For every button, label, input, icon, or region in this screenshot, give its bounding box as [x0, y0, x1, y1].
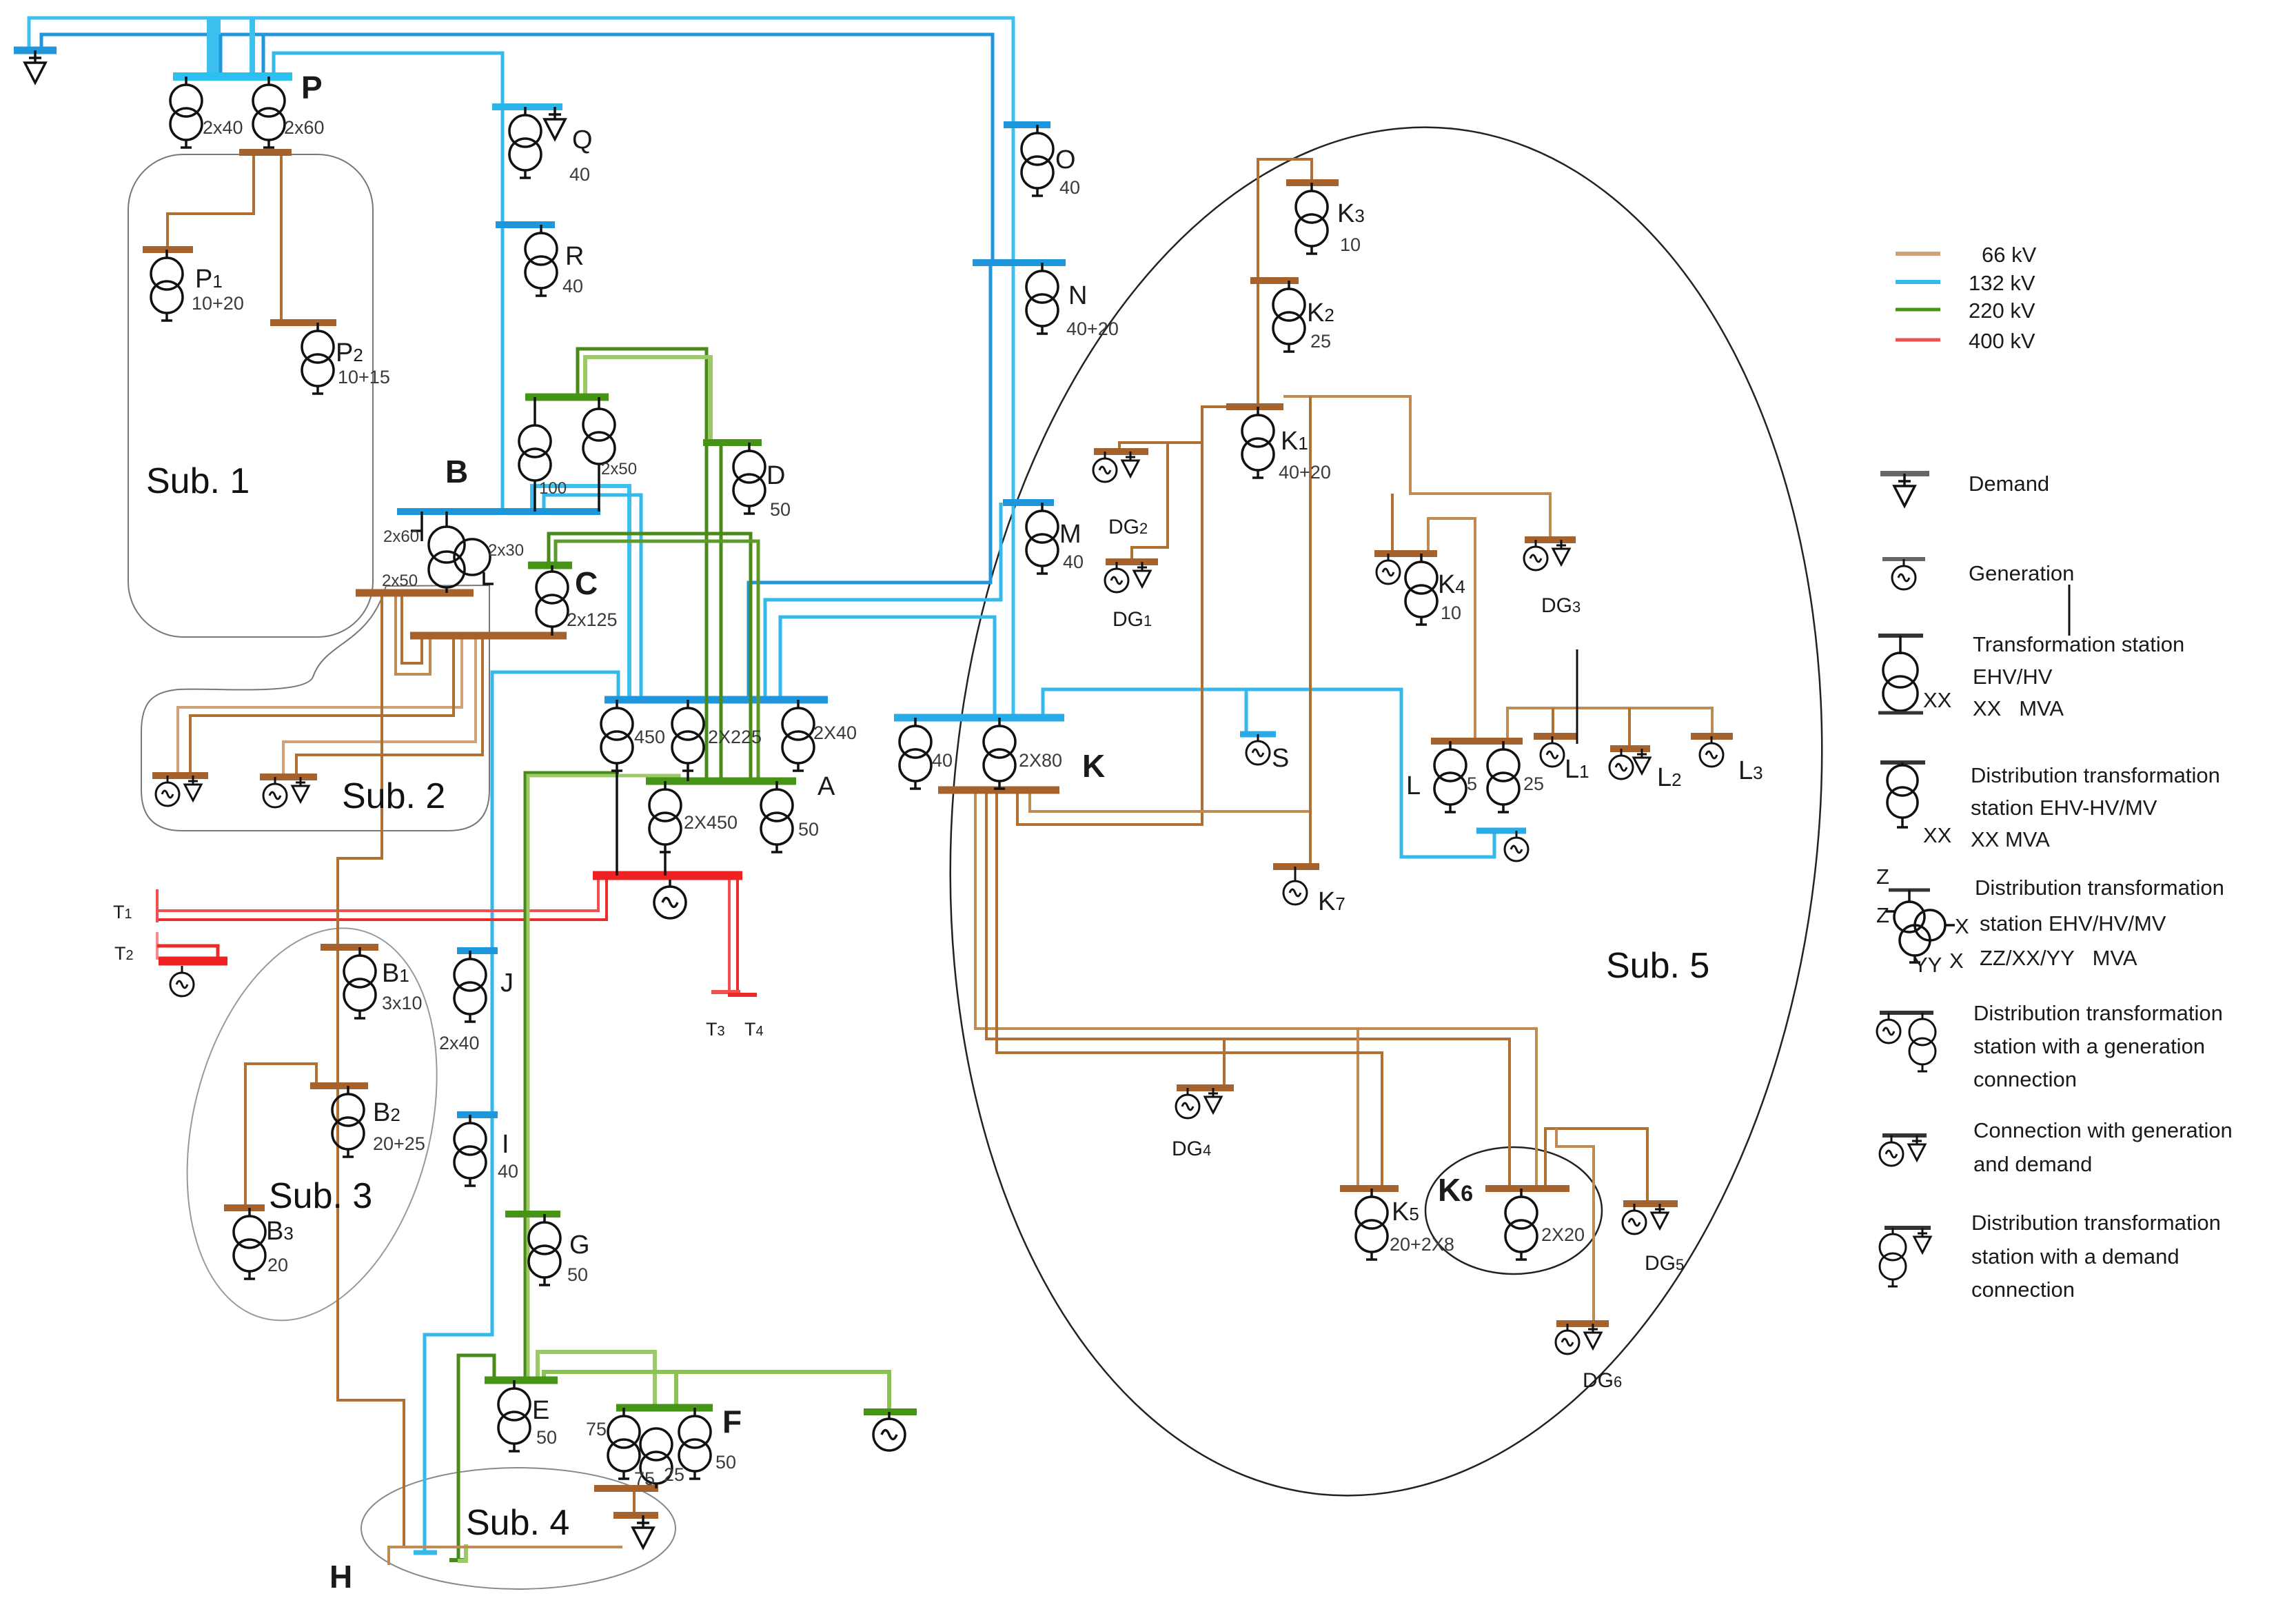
- svg-text:Q: Q: [572, 125, 593, 154]
- DG5 gen and demand: [1623, 1204, 1646, 1234]
- transformer cluster 2x60 2x50 2x30 below B: [411, 512, 494, 593]
- svg-text:F: F: [722, 1404, 742, 1439]
- svg-text:K3: K3: [1337, 199, 1365, 228]
- wire 66kV DG1 branch: [1132, 443, 1168, 562]
- wire 66kV link U2 between brown buses: [402, 593, 422, 663]
- wire 220kV E to F line 1: [538, 1352, 655, 1408]
- wire 220kV D to bus A: [720, 443, 723, 781]
- svg-text:Connection with generation: Connection with generation: [1973, 1118, 2233, 1142]
- Sub. 1 outline: [128, 154, 373, 637]
- transformer K5: [1356, 1189, 1388, 1260]
- svg-text:50: 50: [798, 819, 819, 840]
- svg-text:M: M: [1059, 520, 1081, 549]
- bus K 66kV: [938, 787, 1059, 794]
- wire 132kV P drops from top lines: [207, 18, 221, 77]
- svg-text:3x10: 3x10: [382, 993, 423, 1013]
- svg-text:O: O: [1055, 145, 1076, 174]
- svg-text:Sub. 2: Sub. 2: [342, 776, 445, 816]
- wire 66kV Sub2 feeder 1: [178, 636, 462, 776]
- svg-text:66 kV: 66 kV: [1982, 243, 2037, 267]
- K4 gen: [1376, 554, 1400, 584]
- wire 132kV B to bus A line 1: [532, 486, 629, 700]
- node T2 tick: [156, 932, 159, 960]
- svg-text:2x30: 2x30: [488, 541, 524, 560]
- transformer R: [525, 225, 557, 296]
- transformer I: [454, 1115, 486, 1186]
- wire 66kV P bus to P1: [167, 152, 254, 247]
- bus J: [457, 947, 498, 954]
- svg-text:EHV/HV: EHV/HV: [1973, 665, 2053, 689]
- wire 66kV DG2 branch: [1119, 443, 1202, 452]
- legend swatch 66kV: [1896, 252, 1940, 256]
- wire 66kV L2 drop: [1628, 708, 1631, 749]
- svg-text:YY: YY: [1913, 953, 1942, 977]
- bus K2: [1250, 277, 1299, 284]
- svg-text:E: E: [532, 1396, 549, 1425]
- svg-text:50: 50: [536, 1427, 557, 1448]
- transformer P1: [151, 250, 183, 321]
- svg-text:P1: P1: [195, 265, 223, 294]
- L2 gen and demand: [1609, 749, 1633, 779]
- Sub2 station 1 gen and demand: [156, 776, 179, 806]
- svg-text:Distribution transformation: Distribution transformation: [1971, 763, 2220, 787]
- svg-text:20: 20: [267, 1255, 288, 1275]
- svg-text:Sub. 3: Sub. 3: [269, 1176, 372, 1216]
- svg-text:10: 10: [1441, 603, 1461, 623]
- bus DG3: [1525, 536, 1576, 543]
- svg-text:Z: Z: [1876, 903, 1889, 927]
- wire 66kV DG6 feeder: [1556, 1129, 1594, 1324]
- L1 gen: [1541, 736, 1564, 767]
- wire 220kV bus A to G and E second circuit: [528, 776, 679, 1380]
- wire 66kV H horizontal: [389, 1547, 622, 1565]
- wire 66kV K5 drop light: [1357, 1029, 1359, 1189]
- svg-text:40: 40: [932, 750, 953, 771]
- svg-text:T2: T2: [114, 943, 134, 964]
- node T3 terminal: [711, 990, 740, 994]
- svg-text:10+15: 10+15: [338, 367, 390, 387]
- wire 66kV P bus to P2: [280, 152, 283, 320]
- Sub. 2 outline: [141, 585, 489, 831]
- wire 220kV bus A to G and E: [525, 773, 619, 1380]
- svg-text:B2: B2: [373, 1098, 400, 1127]
- bus K5: [1340, 1185, 1399, 1192]
- transformer K2: [1273, 281, 1305, 352]
- wire 66kV DG4 drop: [1223, 1039, 1226, 1088]
- legend distribution transformation station EHV-HV MV: [1880, 760, 1925, 765]
- svg-text:T4: T4: [744, 1019, 764, 1040]
- wire 66kV L1 drop: [1552, 708, 1554, 736]
- node T4 terminal: [728, 993, 757, 997]
- bus P 66kV: [239, 149, 292, 156]
- svg-text:Distribution transformation: Distribution transformation: [1973, 1001, 2223, 1025]
- svg-text:2x40: 2x40: [203, 117, 243, 138]
- svg-text:220 kV: 220 kV: [1969, 299, 2035, 323]
- bus DG5: [1623, 1200, 1678, 1207]
- wire 132kV N to bus A: [749, 263, 990, 700]
- transformer C 2x125: [536, 565, 568, 636]
- legend pointer line: [2069, 585, 2071, 636]
- transformer A 50: [761, 781, 793, 852]
- bus Sub4 a: [594, 1485, 658, 1492]
- wire 66kV K fan line 1 to K6: [975, 790, 1536, 1189]
- wire 66kV L MV header: [1507, 708, 1712, 741]
- generator right 220kV: [873, 1412, 905, 1451]
- legend transformation station EHV HV: [1878, 634, 1923, 638]
- svg-text:5: 5: [1467, 774, 1477, 794]
- bus brown 1 below B: [356, 589, 474, 597]
- wire 132kV M to bus A: [765, 503, 1001, 700]
- svg-text:K5: K5: [1392, 1197, 1419, 1226]
- bus K1: [1226, 403, 1283, 410]
- transformer B3: [234, 1208, 265, 1279]
- Sub. 4 outline: [361, 1468, 675, 1589]
- bus B3: [224, 1204, 265, 1211]
- bus L MV: [1476, 828, 1526, 834]
- svg-text:N: N: [1068, 281, 1087, 310]
- transformer N: [1026, 263, 1058, 334]
- svg-text:40: 40: [1059, 177, 1080, 198]
- svg-text:B1: B1: [382, 959, 409, 988]
- bus A: [605, 696, 828, 704]
- wire 132kV P-Q-R-B feeder: [274, 53, 502, 512]
- svg-text:25: 25: [1523, 774, 1544, 794]
- wire 66kV K fan line 2 to DG4 K6: [986, 790, 1510, 1189]
- bus DG2: [1094, 448, 1148, 455]
- wire 66kV Sub2 feeder 2: [190, 636, 454, 776]
- legend swatch 132kV: [1896, 280, 1940, 284]
- bus 220kV near B: [525, 394, 609, 401]
- wire 66kV Sub2 feeder 3: [283, 636, 476, 777]
- bus Sub4 b: [613, 1512, 658, 1519]
- svg-text:B: B: [445, 454, 468, 489]
- transformer B1: [344, 947, 376, 1018]
- svg-text:L: L: [1406, 771, 1421, 800]
- L3 gen: [1700, 736, 1723, 767]
- DG6 gen and demand: [1556, 1324, 1579, 1354]
- bus DG6: [1556, 1320, 1609, 1327]
- DG3 gen and demand: [1524, 540, 1547, 570]
- svg-text:K6: K6: [1438, 1172, 1473, 1208]
- svg-text:50: 50: [567, 1264, 588, 1285]
- K6 outline: [1425, 1147, 1602, 1274]
- wire 66kV K7 feeder: [1309, 396, 1312, 867]
- svg-text:B3: B3: [266, 1217, 294, 1246]
- svg-text:Sub. 5: Sub. 5: [1606, 946, 1709, 986]
- wire 400kV to T3 T4: [728, 876, 731, 991]
- bus I: [457, 1111, 498, 1118]
- transformer 100 at green bus: [519, 397, 551, 512]
- legend swatch 220kV: [1896, 308, 1940, 312]
- wire 132kV bus A to J I and H: [425, 672, 618, 1553]
- bus L3: [1691, 733, 1733, 740]
- svg-text:Transformation station: Transformation station: [1973, 632, 2184, 656]
- Sub. 5 outline: [891, 88, 1882, 1535]
- svg-text:132 kV: 132 kV: [1969, 271, 2035, 295]
- wire 66kV K to K1: [1017, 407, 1226, 825]
- svg-text:station with a demand: station with a demand: [1971, 1244, 2180, 1269]
- svg-text:D: D: [766, 461, 785, 490]
- generator at 400kV bus: [654, 880, 686, 918]
- transformer M: [1026, 503, 1058, 574]
- svg-text:L3: L3: [1738, 756, 1763, 785]
- transformer P2: [302, 323, 334, 394]
- wire 220kV green top bus to D: [585, 357, 711, 443]
- svg-text:DG3: DG3: [1541, 594, 1581, 617]
- wire 66kV DG5 feeder: [1545, 1129, 1647, 1204]
- wire 132kV top line 2 (left demand bus to N): [41, 34, 993, 263]
- svg-text:2X20: 2X20: [1541, 1224, 1585, 1245]
- svg-text:2X80: 2X80: [1019, 750, 1062, 771]
- bus K6: [1485, 1185, 1569, 1192]
- wire 66kV K lower line: [1030, 790, 1310, 811]
- svg-text:Distribution transformation: Distribution transformation: [1975, 876, 2224, 900]
- svg-text:40: 40: [562, 276, 583, 296]
- wire 66kV K1 right feeder: [1283, 396, 1550, 540]
- svg-text:A: A: [817, 772, 835, 801]
- wire 132kV K to S and L MV: [1043, 689, 1494, 857]
- svg-text:T1: T1: [113, 902, 132, 922]
- legend demand symbol: [1880, 471, 1929, 476]
- svg-text:I: I: [502, 1130, 509, 1159]
- svg-text:20+25: 20+25: [373, 1133, 425, 1154]
- generator T2: [170, 966, 194, 996]
- bus F: [616, 1404, 713, 1412]
- svg-text:DG6: DG6: [1583, 1369, 1622, 1392]
- DG2 gen and demand: [1093, 452, 1117, 482]
- transformer K4: [1405, 554, 1437, 625]
- svg-text:J: J: [500, 969, 514, 998]
- svg-text:XX MVA: XX MVA: [1973, 696, 2064, 720]
- transformer P 2x40: [170, 77, 202, 148]
- wire 400kV T2 branch: [157, 946, 218, 961]
- svg-text:75: 75: [634, 1468, 655, 1489]
- svg-text:Sub. 4: Sub. 4: [466, 1503, 569, 1543]
- legend distribution with generation: [1880, 1011, 1933, 1015]
- bus L1: [1534, 733, 1577, 740]
- bus G: [505, 1211, 560, 1217]
- bus K7: [1273, 863, 1319, 870]
- svg-text:50: 50: [715, 1452, 736, 1473]
- svg-text:25: 25: [664, 1464, 684, 1485]
- transformer K 40: [900, 718, 931, 789]
- svg-text:ZZ/XX/YY MVA: ZZ/XX/YY MVA: [1980, 946, 2137, 970]
- bus E: [485, 1377, 558, 1384]
- bus M: [1003, 499, 1054, 506]
- wire 66kV K4 to L: [1428, 518, 1475, 741]
- transformer B2: [332, 1086, 364, 1157]
- svg-text:station EHV-HV/MV: station EHV-HV/MV: [1971, 796, 2157, 820]
- Sub2 station 2 gen and demand: [263, 777, 287, 807]
- wire 400kV T1 double line: [157, 876, 598, 911]
- svg-text:2x50: 2x50: [382, 572, 418, 590]
- svg-text:10+20: 10+20: [192, 293, 244, 314]
- wire 66kV K4 drop: [1391, 494, 1394, 554]
- svg-text:Z: Z: [1876, 865, 1889, 889]
- legend distribution with demand: [1884, 1226, 1931, 1230]
- bus Sub2 station 2: [260, 774, 317, 780]
- legend swatch 400kV: [1896, 338, 1940, 342]
- svg-text:P2: P2: [336, 338, 363, 367]
- transformer L a: [1434, 741, 1466, 812]
- transformer 450: [601, 700, 633, 771]
- transformer 2X450: [649, 781, 681, 852]
- bus D: [703, 439, 762, 446]
- transformer G: [529, 1214, 560, 1285]
- svg-text:2x60: 2x60: [383, 527, 419, 546]
- svg-text:station EHV/HV/MV: station EHV/HV/MV: [1980, 911, 2166, 936]
- wire 220kV C to bus A line 2: [556, 541, 758, 781]
- svg-text:H: H: [329, 1559, 352, 1595]
- svg-text:75: 75: [586, 1419, 607, 1439]
- svg-text:100: 100: [539, 479, 567, 498]
- bus P1: [143, 246, 193, 253]
- svg-text:connection: connection: [1971, 1277, 2075, 1302]
- transformer K3: [1296, 183, 1328, 254]
- svg-text:K: K: [1082, 748, 1105, 784]
- svg-text:station with a generation: station with a generation: [1973, 1034, 2205, 1058]
- wire 220kV H green tick: [449, 1558, 467, 1562]
- transformer D: [733, 443, 765, 514]
- svg-text:C: C: [575, 565, 598, 601]
- svg-text:and demand: and demand: [1973, 1152, 2092, 1176]
- svg-text:K2: K2: [1307, 299, 1334, 327]
- legend generation symbol: [1882, 557, 1925, 561]
- bus K4: [1374, 550, 1437, 557]
- svg-text:T3: T3: [706, 1019, 725, 1040]
- demand Q: [545, 107, 565, 139]
- svg-text:DG4: DG4: [1172, 1138, 1211, 1160]
- svg-text:40+20: 40+20: [1066, 319, 1119, 339]
- wire 66kV K3 to K1: [1258, 159, 1312, 407]
- svg-text:2x40: 2x40: [439, 1033, 480, 1053]
- svg-text:40: 40: [569, 164, 590, 185]
- bus R: [496, 221, 555, 228]
- svg-text:2X225: 2X225: [708, 727, 762, 747]
- bus O: [1004, 121, 1050, 128]
- wire 220kV E to F and right generator: [544, 1372, 889, 1412]
- bus B2: [310, 1082, 368, 1089]
- transformer K 2X80: [984, 718, 1015, 789]
- svg-text:XX MVA: XX MVA: [1971, 827, 2050, 851]
- bus P: [173, 72, 292, 81]
- transformer E: [498, 1380, 530, 1451]
- bus DG1: [1106, 558, 1158, 565]
- DG1 gen and demand: [1105, 562, 1128, 592]
- svg-text:XX: XX: [1923, 823, 1952, 847]
- svg-text:DG2: DG2: [1108, 516, 1148, 538]
- svg-text:K1: K1: [1281, 427, 1308, 456]
- K7 gen: [1294, 867, 1297, 876]
- svg-text:2x125: 2x125: [567, 609, 618, 630]
- transformer 2X40: [782, 700, 814, 771]
- bus demand top-left: [14, 47, 57, 54]
- transformer O: [1022, 125, 1053, 196]
- demand Sub4: [633, 1515, 653, 1548]
- svg-text:P: P: [301, 70, 323, 105]
- bus B1: [321, 944, 378, 951]
- bus C: [528, 562, 572, 569]
- svg-text:X: X: [1955, 914, 1969, 938]
- demand top-left: [25, 50, 45, 83]
- bus K: [894, 714, 1064, 722]
- bus L2: [1610, 745, 1650, 752]
- wire 66kV Sub2 feeder 4: [296, 636, 482, 777]
- svg-text:2x50: 2x50: [601, 460, 637, 478]
- wire 66kV B2 to B3: [245, 1064, 316, 1208]
- svg-text:S: S: [1272, 744, 1289, 773]
- bus S: [1240, 731, 1276, 738]
- svg-text:10: 10: [1340, 234, 1361, 255]
- bus K3: [1286, 179, 1339, 186]
- Sub. 3 outline: [149, 902, 476, 1347]
- svg-text:50: 50: [770, 499, 791, 520]
- transformer L b: [1487, 741, 1519, 812]
- wire 66kV Sub4 bus link: [633, 1488, 636, 1515]
- generator S: [1246, 734, 1270, 765]
- bus 400kV at A: [593, 871, 742, 880]
- svg-text:connection: connection: [1973, 1067, 2077, 1091]
- bus brown 2 below B: [410, 632, 567, 640]
- svg-text:R: R: [565, 242, 584, 271]
- DG4 gen and demand: [1176, 1088, 1199, 1118]
- wire 220kV F drop: [674, 1372, 678, 1408]
- transformer K1: [1242, 407, 1274, 478]
- bus Q: [492, 103, 562, 110]
- svg-text:L1: L1: [1565, 755, 1589, 784]
- transformer Q: [509, 107, 541, 178]
- svg-text:400 kV: 400 kV: [1969, 329, 2035, 353]
- svg-text:Distribution transformation: Distribution transformation: [1971, 1211, 2221, 1235]
- transformer P 2x60: [253, 77, 285, 148]
- svg-text:XX: XX: [1923, 688, 1952, 712]
- transformer 2X225: [672, 700, 704, 771]
- bus A 220kV: [646, 778, 796, 785]
- stray vertical line near L1: [1576, 649, 1578, 744]
- wire 220kV H light tick: [458, 1544, 466, 1561]
- svg-text:40: 40: [498, 1161, 518, 1182]
- svg-text:DG1: DG1: [1113, 608, 1152, 631]
- svg-text:40: 40: [1063, 552, 1084, 572]
- bus DG4: [1177, 1084, 1234, 1091]
- wire 132kV H end tick: [414, 1550, 437, 1555]
- svg-text:2X450: 2X450: [684, 812, 738, 833]
- svg-text:K7: K7: [1318, 887, 1345, 916]
- wire 132kV B to bus A line 2: [544, 495, 641, 700]
- wire 66kV link U1 between brown buses: [396, 593, 430, 674]
- transformer 2x50 at green bus: [583, 397, 615, 512]
- svg-text:450: 450: [634, 727, 665, 747]
- svg-text:Generation: Generation: [1969, 561, 2074, 585]
- svg-text:40+20: 40+20: [1279, 462, 1331, 483]
- svg-text:25: 25: [1310, 331, 1331, 352]
- wire 66kV K fan line 3 to K5: [997, 790, 1382, 1189]
- wire 132kV top line 1 (left demand bus to O, through P): [29, 18, 1013, 716]
- transformer K6: [1505, 1189, 1537, 1260]
- transformer J: [454, 951, 486, 1022]
- wire 220kV E to H link: [458, 1355, 494, 1560]
- svg-text:20+2X8: 20+2X8: [1390, 1234, 1454, 1255]
- svg-text:X: X: [1949, 949, 1964, 973]
- node T1 tick: [156, 889, 159, 922]
- bus 220kV right generator: [864, 1408, 917, 1415]
- bus Sub2 station 1: [152, 772, 208, 779]
- bus B: [397, 508, 600, 515]
- wire 220kV C to bus A line 1: [549, 534, 751, 781]
- svg-text:Sub. 1: Sub. 1: [146, 461, 250, 501]
- wire 132kV bus A to bus K: [780, 617, 995, 718]
- generator L MV: [1505, 831, 1528, 861]
